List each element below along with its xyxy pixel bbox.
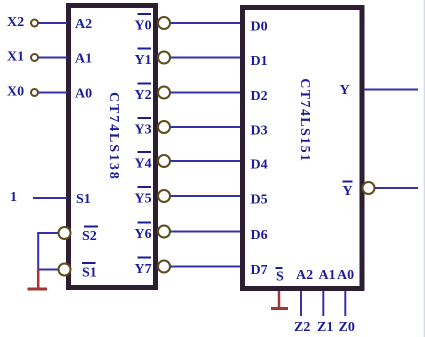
ground lead left — [37, 270, 40, 288]
pin label Y0bar — [135, 14, 152, 34]
wire Y5 to D5 — [171, 195, 242, 197]
pin bubble Y4bar — [158, 155, 170, 167]
svg-text:D6: D6 — [251, 228, 268, 243]
pin bubble Y5bar — [158, 190, 170, 202]
wire X2 to pin A2 — [39, 22, 68, 24]
svg-text:A1: A1 — [75, 52, 92, 67]
svg-text:A2: A2 — [75, 17, 92, 32]
svg-text:A2: A2 — [296, 268, 313, 283]
wire Y2 to D2 — [171, 92, 242, 94]
pin label Sbar — [276, 268, 285, 285]
svg-text:D0: D0 — [251, 20, 268, 35]
svg-text:CT74LS138: CT74LS138 — [106, 92, 121, 181]
IC CT74LS138 body — [69, 6, 156, 288]
svg-text:Y: Y — [340, 83, 350, 98]
pin label S1bar — [82, 263, 97, 281]
wire 1 to pin S1 — [33, 197, 67, 199]
wire Y1 to D1 — [171, 57, 242, 59]
svg-text:S: S — [276, 270, 284, 285]
pin bubble Y0bar — [158, 17, 170, 29]
wire A1 to Z1 — [322, 291, 324, 316]
svg-text:X2: X2 — [7, 15, 24, 30]
svg-text:Y4: Y4 — [135, 157, 152, 172]
wire junction down — [37, 232, 39, 270]
IC CT74LS151 body — [243, 8, 363, 289]
wire Y3 to D3 — [171, 126, 242, 128]
wire Y6 to D6 — [171, 231, 242, 233]
terminal X2 — [31, 20, 38, 27]
pin bubble Y7bar — [158, 261, 170, 273]
svg-text:Z1: Z1 — [317, 320, 333, 335]
wire X0 to pin A0 — [39, 92, 68, 94]
wire Y4 to D4 — [171, 160, 242, 162]
svg-text:A0: A0 — [337, 268, 354, 283]
pin label Y2bar — [135, 84, 152, 104]
svg-text:Y6: Y6 — [135, 227, 152, 242]
pin label S2bar — [82, 227, 98, 245]
svg-text:Y3: Y3 — [135, 123, 152, 138]
pin label Y4bar — [135, 152, 152, 172]
wire X1 to pin A1 — [39, 57, 68, 59]
svg-text:A1: A1 — [319, 268, 336, 283]
pin bubble Y2bar — [158, 87, 170, 99]
svg-text:Z2: Z2 — [294, 320, 310, 335]
svg-text:D2: D2 — [251, 89, 268, 104]
wire output Y — [364, 89, 418, 91]
svg-text:Y7: Y7 — [135, 262, 152, 277]
svg-text:Y1: Y1 — [135, 53, 152, 68]
wire A2 to Z2 — [300, 291, 302, 316]
pin label Y6bar — [135, 223, 152, 243]
wire Y0 to D0 — [171, 22, 242, 24]
ground symbol left — [28, 288, 48, 291]
pin bubble Ybar — [363, 182, 375, 194]
ground lead right — [278, 291, 281, 308]
wire A0 to Z0 — [344, 291, 346, 316]
pin bubble Y1bar — [158, 52, 170, 64]
pin label Y1bar — [135, 49, 152, 69]
terminal X1 — [31, 54, 38, 61]
svg-text:X0: X0 — [7, 85, 24, 100]
svg-text:1: 1 — [10, 190, 17, 205]
pin bubble S2bar — [59, 227, 71, 239]
svg-text:Z0: Z0 — [339, 320, 355, 335]
svg-text:A0: A0 — [75, 87, 92, 102]
svg-text:D5: D5 — [251, 193, 268, 208]
svg-text:Y5: Y5 — [135, 192, 152, 207]
pin bubble Y6bar — [158, 226, 170, 238]
svg-text:Y2: Y2 — [135, 88, 152, 103]
pin bubble Y3bar — [158, 121, 170, 133]
svg-text:S1: S1 — [82, 266, 97, 281]
svg-text:D7: D7 — [251, 263, 268, 278]
wire Y7 to D7 — [171, 266, 242, 268]
pin label Y5bar — [135, 187, 152, 207]
svg-text:D3: D3 — [251, 124, 268, 139]
svg-text:S2: S2 — [82, 229, 97, 244]
wire S1bar to junction — [38, 269, 58, 271]
terminal X0 — [31, 89, 38, 96]
pin label Y7bar — [135, 258, 152, 278]
svg-text:Y: Y — [343, 184, 353, 199]
svg-text:X1: X1 — [7, 50, 24, 65]
ground symbol right — [271, 307, 288, 310]
window edge line — [423, 0, 425, 337]
wire S2bar to junction — [38, 232, 58, 234]
wire output Ybar — [375, 187, 418, 189]
svg-text:D4: D4 — [251, 158, 268, 173]
svg-text:D1: D1 — [251, 54, 268, 69]
svg-text:CT74LS151: CT74LS151 — [297, 78, 312, 162]
pin label Y3bar — [135, 118, 152, 138]
pin bubble S1bar — [59, 264, 71, 276]
pin label Ybar — [343, 182, 353, 200]
svg-text:Y0: Y0 — [135, 19, 152, 34]
svg-text:S1: S1 — [76, 192, 91, 207]
